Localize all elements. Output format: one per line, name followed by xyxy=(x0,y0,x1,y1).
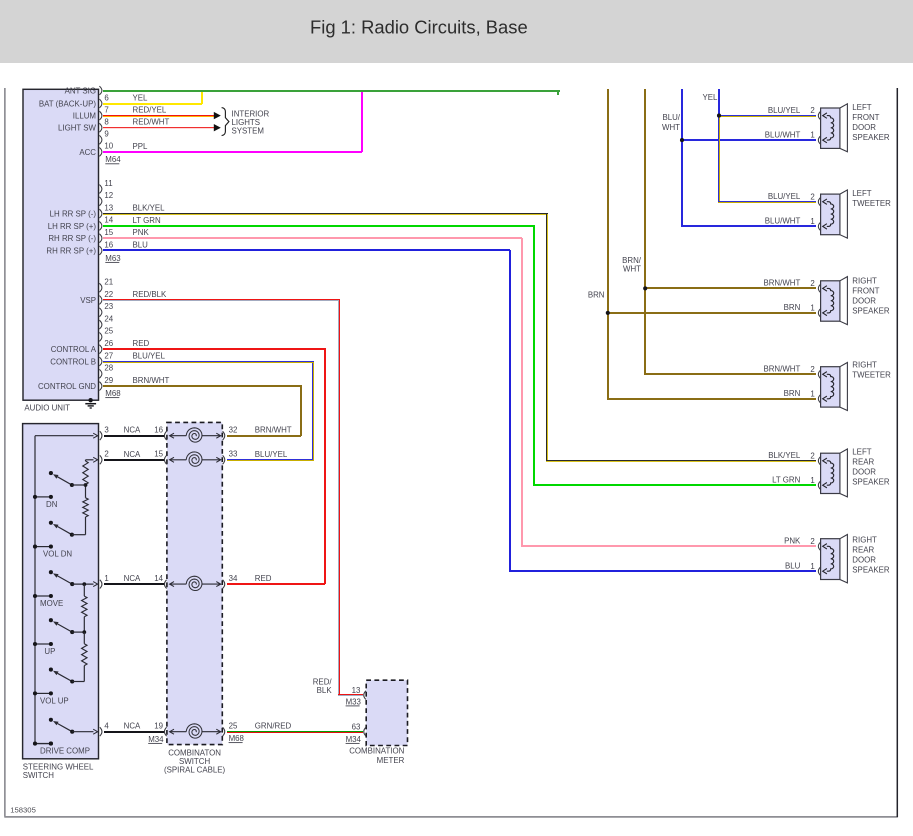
switch VOL UP label xyxy=(40,696,69,705)
label YEL vertical xyxy=(703,93,719,102)
node BLU/YEL junction xyxy=(717,114,721,118)
wire label GRN/RED spiral row xyxy=(255,722,292,731)
right rear door speaker SP6 pin 2 label xyxy=(810,537,814,546)
svg-text:LT GRN: LT GRN xyxy=(133,216,162,225)
label NCA row 435.7 xyxy=(124,426,141,435)
right rear door speaker SP6 name label xyxy=(852,536,890,575)
svg-text:SPEAKER: SPEAKER xyxy=(852,478,890,487)
right front door speaker SP3 pin 2 wire label BRN/WHT xyxy=(763,279,800,288)
svg-text:RED: RED xyxy=(255,574,272,583)
svg-text:BLU/WHT: BLU/WHT xyxy=(765,130,801,139)
svg-text:22: 22 xyxy=(104,290,113,299)
wire to pin 3 xyxy=(35,433,98,438)
svg-text:DN: DN xyxy=(46,500,58,509)
svg-text:BLK/YEL: BLK/YEL xyxy=(133,204,166,213)
left rear door speaker SP5 pin 1 wire label LT GRN xyxy=(772,475,801,484)
svg-text:26: 26 xyxy=(104,339,113,348)
svg-text:LEFT: LEFT xyxy=(852,103,871,112)
combination meter pin 13 terminal xyxy=(352,686,366,700)
switch DN blade xyxy=(53,474,74,487)
svg-text:NCA: NCA xyxy=(124,426,141,435)
wire BRN/WHT vertical from top xyxy=(644,89,816,375)
audio unit label xyxy=(24,403,70,412)
wire BLU pin16 to right rear speaker xyxy=(103,249,816,572)
left tweeter SP2 name label xyxy=(852,189,891,208)
audio unit pin 11 terminal xyxy=(99,179,112,194)
connector M68 right xyxy=(229,734,245,743)
svg-text:24: 24 xyxy=(104,314,113,323)
svg-text:M34: M34 xyxy=(148,735,164,744)
wire to pin 2 and resistor chain top xyxy=(86,457,98,462)
svg-text:3: 3 xyxy=(104,426,109,435)
svg-text:TWEETER: TWEETER xyxy=(852,199,891,208)
svg-text:28: 28 xyxy=(104,364,113,373)
svg-text:RIGHT: RIGHT xyxy=(852,361,877,370)
svg-text:DRIVE COMP: DRIVE COMP xyxy=(40,747,90,756)
switch UP bus stub xyxy=(33,642,53,646)
right tweeter SP4 name label xyxy=(852,361,891,380)
node BLU/WHT junction xyxy=(680,138,816,142)
left front door speaker SP1 box xyxy=(818,104,847,152)
audio unit pin label ANT SIG xyxy=(65,86,96,95)
svg-text:16: 16 xyxy=(154,426,163,435)
svg-text:BLU/: BLU/ xyxy=(662,113,680,122)
resistor R3 xyxy=(82,584,87,632)
svg-text:ACC: ACC xyxy=(79,148,96,157)
label NCA row 731.7 xyxy=(124,722,141,731)
audio unit pin 15 terminal xyxy=(99,228,113,243)
wire BRN vertical from top xyxy=(607,89,816,400)
connector M34 meter xyxy=(346,735,362,744)
wire label BLU/YEL pin row 361.5 xyxy=(133,352,166,361)
svg-text:ANT SIG: ANT SIG xyxy=(65,86,96,95)
right front door speaker SP3 name label xyxy=(852,276,890,315)
wire label PPL pin row 151.9 xyxy=(133,142,149,151)
brace interior lights system xyxy=(222,108,229,136)
switch MOVE label xyxy=(40,599,63,608)
audio unit pin 9 terminal xyxy=(99,130,109,145)
wire NCA row 584.1 xyxy=(104,583,164,585)
svg-text:CONTROL GND: CONTROL GND xyxy=(38,382,96,391)
svg-text:VOL DN: VOL DN xyxy=(43,550,72,559)
audio unit pin 7 terminal xyxy=(99,105,108,120)
svg-text:2: 2 xyxy=(810,279,814,288)
svg-text:YEL: YEL xyxy=(133,94,149,103)
svg-text:NCA: NCA xyxy=(124,574,141,583)
switch common bus xyxy=(35,436,53,746)
right rear door speaker SP6 pin 2 wire label PNK xyxy=(784,537,801,546)
svg-text:M68: M68 xyxy=(229,734,245,743)
audio unit pin 12 terminal xyxy=(99,191,113,206)
spiral cable channel 19-25 xyxy=(154,722,238,739)
svg-text:LEFT: LEFT xyxy=(852,448,871,457)
arrow RED/WHT to interior lights xyxy=(214,124,221,131)
svg-text:LH RR SP (-): LH RR SP (-) xyxy=(50,210,97,219)
audio unit pin label LIGHT SW xyxy=(58,124,97,133)
svg-text:M64: M64 xyxy=(105,155,121,164)
header bar xyxy=(0,0,913,63)
left front door speaker SP1 name label xyxy=(852,103,890,142)
svg-text:CONTROL B: CONTROL B xyxy=(50,357,96,366)
wire label RED spiral row xyxy=(255,574,272,583)
svg-text:SPEAKER: SPEAKER xyxy=(852,306,890,315)
wire NCA row 731.7 xyxy=(104,731,164,733)
wire VOL UP pivot to resistor chain xyxy=(72,681,84,683)
spiral cable channel 16-32 xyxy=(154,426,237,443)
right rear door speaker SP6 box xyxy=(818,535,847,583)
svg-text:Fig 1: Radio Circuits, Base: Fig 1: Radio Circuits, Base xyxy=(310,17,528,38)
switch UP label xyxy=(44,647,55,656)
svg-text:REAR: REAR xyxy=(852,458,874,467)
audio unit pin 24 terminal xyxy=(99,314,113,329)
svg-text:MOVE: MOVE xyxy=(40,599,63,608)
switch VOL UP bus stub xyxy=(33,691,53,695)
svg-text:2: 2 xyxy=(810,106,814,115)
left front door speaker SP1 pin 1 label xyxy=(810,131,814,140)
node BRN/WHT junction xyxy=(643,286,816,290)
audio unit pin 28 terminal xyxy=(99,364,113,379)
resistor R4 xyxy=(82,632,87,681)
svg-text:BRN: BRN xyxy=(784,389,801,398)
left rear door speaker SP5 pin 2 label xyxy=(810,451,814,460)
audio unit pin label CONTROL GND xyxy=(38,382,96,391)
node BRN junction xyxy=(606,311,816,315)
audio unit pin 25 terminal xyxy=(99,327,113,342)
svg-text:CONTROL A: CONTROL A xyxy=(51,345,97,354)
svg-text:BRN/WHT: BRN/WHT xyxy=(255,426,292,435)
ground at audio unit xyxy=(85,398,96,408)
switch DN contact xyxy=(49,471,53,475)
label BRN/WHT vertical xyxy=(622,256,642,274)
label NCA row 459.8 xyxy=(124,450,141,459)
page border right xyxy=(896,88,898,817)
switch DN label xyxy=(46,500,58,509)
left rear door speaker SP5 pin 2 wire label BLK/YEL xyxy=(768,451,801,460)
connector M64 xyxy=(105,155,121,164)
audio unit pin 27 terminal xyxy=(99,351,113,366)
switch UP contact xyxy=(49,618,53,622)
svg-text:UP: UP xyxy=(44,647,55,656)
left rear door speaker SP5 name label xyxy=(852,448,890,487)
svg-text:LT GRN: LT GRN xyxy=(772,475,801,484)
svg-text:1: 1 xyxy=(104,574,108,583)
wire label PNK pin row 238.2 xyxy=(133,228,150,237)
svg-text:1: 1 xyxy=(810,562,814,571)
svg-text:63: 63 xyxy=(352,722,361,731)
svg-text:21: 21 xyxy=(104,278,113,287)
svg-text:BRN/WHT: BRN/WHT xyxy=(133,376,170,385)
wire label BRN/WHT spiral row xyxy=(255,426,292,435)
combination meter pin 63 terminal xyxy=(352,722,366,736)
svg-text:BLU/YEL: BLU/YEL xyxy=(255,450,288,459)
wire label RED/BLK pin row 300.0 xyxy=(133,290,168,299)
connector M63 xyxy=(105,254,121,263)
svg-text:158305: 158305 xyxy=(10,806,36,815)
wire DN pivot to resistor chain xyxy=(72,484,86,486)
svg-text:ILLUM: ILLUM xyxy=(73,112,96,121)
svg-text:25: 25 xyxy=(229,722,238,731)
svg-text:BLU: BLU xyxy=(785,561,801,570)
wire RED/BLK pin22 to combination meter xyxy=(103,299,363,696)
wire DRIVE COMP pivot to pin 4 xyxy=(72,729,97,734)
audio unit pin 6 terminal xyxy=(99,93,109,108)
svg-text:29: 29 xyxy=(104,376,113,385)
svg-text:2: 2 xyxy=(810,451,814,460)
switch VOL DN blade xyxy=(53,524,74,537)
label BRN xyxy=(588,290,605,299)
wire RED/WHT pin8 xyxy=(103,127,214,129)
wire label RED pin row 349.2 xyxy=(133,339,150,348)
wire label LT GRN pin row 225.9 xyxy=(133,216,162,225)
wire GRN/RED spiral pin25 to meter pin63 xyxy=(227,731,363,733)
resistor R2 xyxy=(83,485,88,535)
right rear door speaker SP6 pin 1 label xyxy=(810,562,814,571)
svg-text:12: 12 xyxy=(104,191,113,200)
svg-text:RED/BLK: RED/BLK xyxy=(133,290,168,299)
svg-text:10: 10 xyxy=(104,142,113,151)
svg-text:33: 33 xyxy=(229,450,238,459)
svg-text:RED: RED xyxy=(133,339,150,348)
wire YEL pin6 xyxy=(103,92,203,105)
svg-text:RED/YEL: RED/YEL xyxy=(133,106,167,115)
left tweeter SP2 pin 2 wire label BLU/YEL xyxy=(768,192,801,201)
right tweeter SP4 pin 2 wire label BRN/WHT xyxy=(763,365,800,374)
wire VOL DN pivot to resistor chain xyxy=(72,534,86,536)
wire MOVE pivot row to pin 1 xyxy=(72,582,97,587)
audio unit pin label ILLUM xyxy=(73,112,96,121)
switch MOVE blade xyxy=(53,573,74,586)
svg-text:23: 23 xyxy=(104,302,113,311)
svg-text:BRN: BRN xyxy=(784,303,801,312)
audio unit pin 23 terminal xyxy=(99,302,113,317)
switch VOL DN bus stub xyxy=(33,545,53,549)
audio unit pin 26 terminal xyxy=(99,339,113,354)
wire NCA row 435.7 xyxy=(104,435,164,437)
steering wheel switch box xyxy=(23,424,99,759)
svg-text:VOL UP: VOL UP xyxy=(40,696,69,705)
svg-text:32: 32 xyxy=(229,426,238,435)
svg-text:(SPIRAL CABLE): (SPIRAL CABLE) xyxy=(164,765,225,774)
svg-text:DOOR: DOOR xyxy=(852,468,876,477)
svg-text:25: 25 xyxy=(104,327,113,336)
left front door speaker SP1 pin 2 wire label BLU/YEL xyxy=(768,106,801,115)
svg-text:1: 1 xyxy=(810,476,814,485)
connector M68 audio xyxy=(105,389,121,398)
title xyxy=(310,17,528,38)
svg-text:BLU: BLU xyxy=(133,241,149,250)
left tweeter SP2 pin 2 label xyxy=(810,192,814,201)
svg-text:RH RR SP (-): RH RR SP (-) xyxy=(48,234,96,243)
audio unit pin label CONTROL A xyxy=(51,345,97,354)
audio unit pin label VSP xyxy=(80,296,96,305)
svg-text:6: 6 xyxy=(104,93,109,102)
svg-text:WHT: WHT xyxy=(662,123,680,132)
svg-text:AUDIO UNIT: AUDIO UNIT xyxy=(24,403,70,412)
audio unit pin 22 terminal xyxy=(99,290,113,305)
right front door speaker SP3 pin 2 label xyxy=(810,279,814,288)
wire RED pin26 to spiral cable pin34 xyxy=(103,348,326,585)
svg-text:BLU/WHT: BLU/WHT xyxy=(765,217,801,226)
right tweeter SP4 pin 1 wire label BRN xyxy=(784,389,801,398)
svg-text:2: 2 xyxy=(810,192,814,201)
svg-text:1: 1 xyxy=(810,131,814,140)
svg-text:DOOR: DOOR xyxy=(852,123,876,132)
right rear door speaker SP6 pin 1 wire label BLU xyxy=(785,561,801,570)
svg-text:27: 27 xyxy=(104,351,113,360)
right front door speaker SP3 pin 1 label xyxy=(810,304,814,313)
steering wheel switch pin 1 terminal xyxy=(100,574,109,589)
right tweeter SP4 pin 2 label xyxy=(810,365,814,374)
page border left xyxy=(4,88,6,817)
svg-text:15: 15 xyxy=(104,228,113,237)
wire label BRN/WHT pin row 386.1 xyxy=(133,376,170,385)
wire label RED/YEL pin row 115.6 xyxy=(133,106,167,115)
svg-text:SWITCH: SWITCH xyxy=(23,771,54,780)
svg-text:NCA: NCA xyxy=(124,722,141,731)
connector M33 xyxy=(346,697,362,706)
svg-text:1: 1 xyxy=(810,217,814,226)
wire label BLK/YEL pin row 213.6 xyxy=(133,204,166,213)
audio unit pin ANT terminal xyxy=(99,86,102,95)
wire RED/YEL pin7 xyxy=(103,115,214,117)
svg-text:GRN/RED: GRN/RED xyxy=(255,722,292,731)
steering wheel switch label xyxy=(23,763,94,781)
audio unit pin label RH RR SP (+) xyxy=(46,246,96,255)
svg-text:15: 15 xyxy=(154,450,163,459)
svg-text:SPEAKER: SPEAKER xyxy=(852,133,890,142)
svg-text:PNK: PNK xyxy=(784,537,801,546)
arrow RED/YEL to interior lights xyxy=(214,112,221,119)
svg-text:FRONT: FRONT xyxy=(852,113,879,122)
svg-text:11: 11 xyxy=(104,179,112,188)
svg-text:TWEETER: TWEETER xyxy=(852,371,891,380)
switch VOL DN label xyxy=(43,550,72,559)
audio unit pin 16 terminal xyxy=(99,240,113,255)
wire BLU/YEL to left front speaker and tweeter xyxy=(718,115,816,203)
spiral cable channel 14-34 xyxy=(154,574,238,591)
svg-text:BLK/YEL: BLK/YEL xyxy=(768,451,801,460)
svg-text:SYSTEM: SYSTEM xyxy=(232,127,264,136)
switch VOL UP contact xyxy=(49,668,53,672)
figure number 158305 xyxy=(10,806,36,815)
wire YEL/BLU vertical from top xyxy=(718,89,720,116)
svg-text:REAR: REAR xyxy=(852,546,874,555)
svg-text:DOOR: DOOR xyxy=(852,556,876,565)
switch MOVE bus stub xyxy=(33,594,53,598)
combination meter box xyxy=(366,680,407,745)
switch DRIVE COMP label xyxy=(40,747,90,756)
switch MOVE contact xyxy=(49,570,53,574)
wire label YEL pin row 103.5 xyxy=(133,94,149,103)
wire ANT SIG green top xyxy=(103,90,560,95)
svg-text:YEL: YEL xyxy=(703,93,719,102)
svg-text:BLU/YEL: BLU/YEL xyxy=(768,192,801,201)
svg-text:1: 1 xyxy=(810,389,814,398)
svg-text:1: 1 xyxy=(810,304,814,313)
svg-text:BRN: BRN xyxy=(588,290,605,299)
wire PNK pin15 to right rear speaker xyxy=(103,237,816,547)
steering wheel switch pin 2 terminal xyxy=(100,450,109,465)
svg-text:PNK: PNK xyxy=(133,228,150,237)
svg-text:19: 19 xyxy=(154,722,163,731)
svg-text:M33: M33 xyxy=(346,697,362,706)
wire label BLU/YEL spiral row xyxy=(255,450,288,459)
svg-text:BRN/WHT: BRN/WHT xyxy=(763,365,800,374)
combination switch spiral cable box xyxy=(167,422,222,744)
svg-text:LH RR SP (+): LH RR SP (+) xyxy=(48,222,97,231)
svg-text:METER: METER xyxy=(377,756,405,765)
left rear door speaker SP5 box xyxy=(818,449,847,497)
label INTERIOR LIGHTS SYSTEM xyxy=(232,109,270,135)
wire BLU/YEL pin27 to spiral cable pin33 xyxy=(103,361,314,461)
label RED/BLK at meter xyxy=(313,677,333,695)
audio unit U1 box xyxy=(23,89,99,400)
svg-text:2: 2 xyxy=(104,450,108,459)
spiral cable channel 15-33 xyxy=(154,450,238,467)
right front door speaker SP3 box xyxy=(818,277,847,325)
svg-text:M34: M34 xyxy=(346,735,362,744)
left tweeter SP2 box xyxy=(818,190,847,238)
switch DRIVE COMP blade xyxy=(53,721,74,734)
svg-text:WHT: WHT xyxy=(623,265,641,274)
svg-text:14: 14 xyxy=(154,574,163,583)
svg-text:M63: M63 xyxy=(105,254,121,263)
svg-text:LIGHT SW: LIGHT SW xyxy=(58,124,97,133)
svg-text:7: 7 xyxy=(104,105,108,114)
svg-text:8: 8 xyxy=(104,118,109,127)
svg-text:SPEAKER: SPEAKER xyxy=(852,566,890,575)
audio unit pin 14 terminal xyxy=(99,216,113,231)
audio unit pin label ACC xyxy=(79,148,96,157)
svg-text:14: 14 xyxy=(104,216,113,225)
wire BLK/YEL pin13 to left rear speaker xyxy=(103,213,816,462)
wire BLU/WHT vertical from top xyxy=(681,89,816,227)
wire NCA row 459.8 xyxy=(104,459,164,461)
combination switch label xyxy=(164,748,225,774)
switch VOL DN contact xyxy=(49,521,53,525)
wire label BLU pin row 250.5 xyxy=(133,241,149,250)
resistor R1 xyxy=(83,461,88,485)
left rear door speaker SP5 pin 1 label xyxy=(810,476,814,485)
switch VOL UP blade xyxy=(53,671,74,684)
svg-text:BLU/YEL: BLU/YEL xyxy=(768,106,801,115)
switch DRIVE COMP bus stub xyxy=(33,742,53,746)
steering wheel switch pin 3 terminal xyxy=(100,426,110,441)
audio unit pin 29 terminal xyxy=(99,376,113,391)
right tweeter SP4 pin 1 label xyxy=(810,389,814,398)
label BLU/WHT vertical xyxy=(662,113,681,132)
svg-text:DOOR: DOOR xyxy=(852,296,876,305)
switch UP blade xyxy=(53,621,74,634)
label NCA row 584.1 xyxy=(124,574,141,583)
svg-text:FRONT: FRONT xyxy=(852,286,879,295)
right tweeter SP4 box xyxy=(818,363,847,411)
audio unit pin 13 terminal xyxy=(99,203,113,218)
svg-text:34: 34 xyxy=(229,574,238,583)
node R1-R2 junction xyxy=(84,483,88,487)
switch DRIVE COMP contact xyxy=(49,718,53,722)
wire label RED/WHT pin row 127.7 xyxy=(133,118,170,127)
svg-text:BRN/WHT: BRN/WHT xyxy=(763,279,800,288)
svg-text:13: 13 xyxy=(352,686,361,695)
left tweeter SP2 pin 1 wire label BLU/WHT xyxy=(765,217,801,226)
wire PPL pin10 xyxy=(103,92,363,153)
audio unit pin label RH RR SP (-) xyxy=(48,234,96,243)
svg-text:9: 9 xyxy=(104,130,109,139)
left front door speaker SP1 pin 1 wire label BLU/WHT xyxy=(765,130,801,139)
left front door speaker SP1 pin 2 label xyxy=(810,106,814,115)
audio unit pin 8 terminal xyxy=(99,118,109,133)
